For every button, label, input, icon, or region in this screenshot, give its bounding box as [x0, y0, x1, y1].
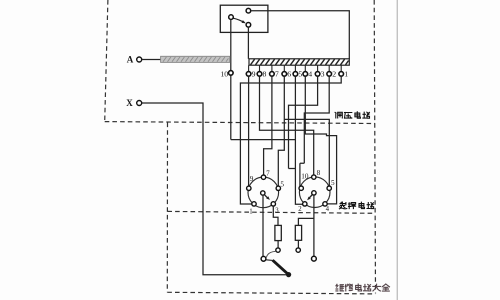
changeover switch S (top box) [220, 5, 268, 32]
S2 contact 8 [312, 175, 316, 179]
wire terminal 9 to S1 upper-left contact [248, 76, 250, 186]
terminal A [127, 55, 142, 65]
svg-text:3: 3 [321, 70, 325, 79]
wire terminal 3 routing [289, 76, 318, 168]
wire terminal 8 to S2 top contact [260, 76, 314, 175]
wire terminal 6 to S1 upper-right contact [278, 76, 284, 186]
svg-text:7: 7 [266, 169, 270, 177]
wire S1 lower-right contact to fuse FU1 [273, 206, 278, 225]
wire X down to knife switch [142, 103, 288, 275]
svg-text:8: 8 [263, 70, 267, 79]
tap terminal 2 [327, 70, 336, 79]
wire S2 center down to knife switch contact [313, 195, 315, 256]
S2 wiper arrow [309, 195, 312, 199]
svg-text:2: 2 [332, 70, 336, 79]
wire staircase joint near S2 upper-left [289, 163, 305, 168]
wire branch S2 center to fuse FU2 [298, 218, 314, 225]
tap terminal 8 [257, 70, 266, 79]
svg-text:6: 6 [287, 70, 291, 79]
S1 contact 9 [247, 186, 251, 190]
terminal X [126, 98, 141, 108]
S1 wiper arrow [264, 195, 268, 199]
wire terminal 1 to S1 lower-left contact [240, 76, 341, 204]
svg-text:5: 5 [280, 180, 284, 188]
primary winding (shaded bar) [161, 56, 230, 62]
wire terminal 7 to S1 top contact [264, 76, 272, 175]
svg-text:1: 1 [249, 208, 252, 215]
wire S1 center down to knife switch contact [262, 195, 264, 256]
tap terminal 9 [246, 70, 255, 79]
svg-text:10: 10 [301, 172, 309, 180]
S1 contact 7 [261, 175, 265, 179]
rotary selector S1 (odd taps) [247, 169, 285, 215]
S2 contact 4 [323, 202, 327, 206]
tap terminal 7 [270, 70, 279, 79]
svg-text:10: 10 [220, 69, 228, 78]
tap winding with hatching [249, 59, 349, 65]
tap terminal 4 [303, 70, 312, 79]
S1 center contact [261, 191, 265, 195]
wire from switch left contact down through terminal 10 [230, 20, 232, 140]
S2 contact 6 [327, 186, 331, 190]
tap terminal stubs from winding to circles [249, 65, 342, 71]
wire terminal 10 to selector (horizontal run) [231, 139, 296, 141]
svg-text:2: 2 [298, 206, 302, 213]
fuse FU1 [275, 225, 281, 252]
wire terminal 2 to S2 upper-left contact [300, 76, 329, 186]
S1 contact 1 [252, 202, 256, 206]
tap terminal 3 [315, 70, 324, 79]
svg-text:4: 4 [308, 70, 312, 79]
svg-text:A: A [127, 55, 134, 65]
S1 contact 3 [271, 202, 275, 206]
S2 center contact [312, 191, 316, 195]
dashed enclosure: selector circuit box [167, 123, 375, 294]
S2 contact 2 [303, 202, 307, 206]
svg-text:1: 1 [344, 70, 348, 79]
svg-text:8: 8 [317, 169, 321, 177]
S1 contact 5 [276, 186, 280, 190]
wire terminal 5 to S2 lower-left contact [295, 76, 302, 204]
svg-text:5: 5 [331, 179, 335, 187]
wire terminal 4 to S2 lower-right contact [305, 76, 336, 204]
label 调压电路 [335, 112, 369, 118]
svg-text:9: 9 [252, 70, 256, 79]
wire from switch bottom contact to left end of tap winding [247, 27, 249, 59]
tap terminal 10 [220, 69, 233, 78]
wire A to primary winding [142, 59, 161, 61]
fuse FU2 [295, 225, 301, 252]
rotary selector S2 (even taps) [298, 169, 335, 213]
tap terminal 1 [339, 70, 348, 79]
svg-text:4: 4 [326, 206, 330, 213]
wire branch to S2 upper-right contact [284, 119, 329, 186]
tap terminal 5 [293, 70, 302, 79]
watermark 维修电路大全 [336, 284, 390, 291]
S2 contact 10 [299, 186, 303, 190]
knife switch Q [261, 251, 316, 277]
tap terminal 6 [282, 70, 291, 79]
svg-text:3: 3 [275, 207, 279, 214]
svg-text:7: 7 [275, 70, 279, 79]
svg-text:5: 5 [298, 70, 302, 79]
svg-text:X: X [126, 98, 133, 108]
svg-text:9: 9 [250, 175, 254, 183]
wire from switch top contact to right end of tap winding [251, 11, 349, 59]
label 选择电路 [339, 202, 373, 209]
dashed enclosure: voltage-regulating circuit box [105, 0, 376, 293]
